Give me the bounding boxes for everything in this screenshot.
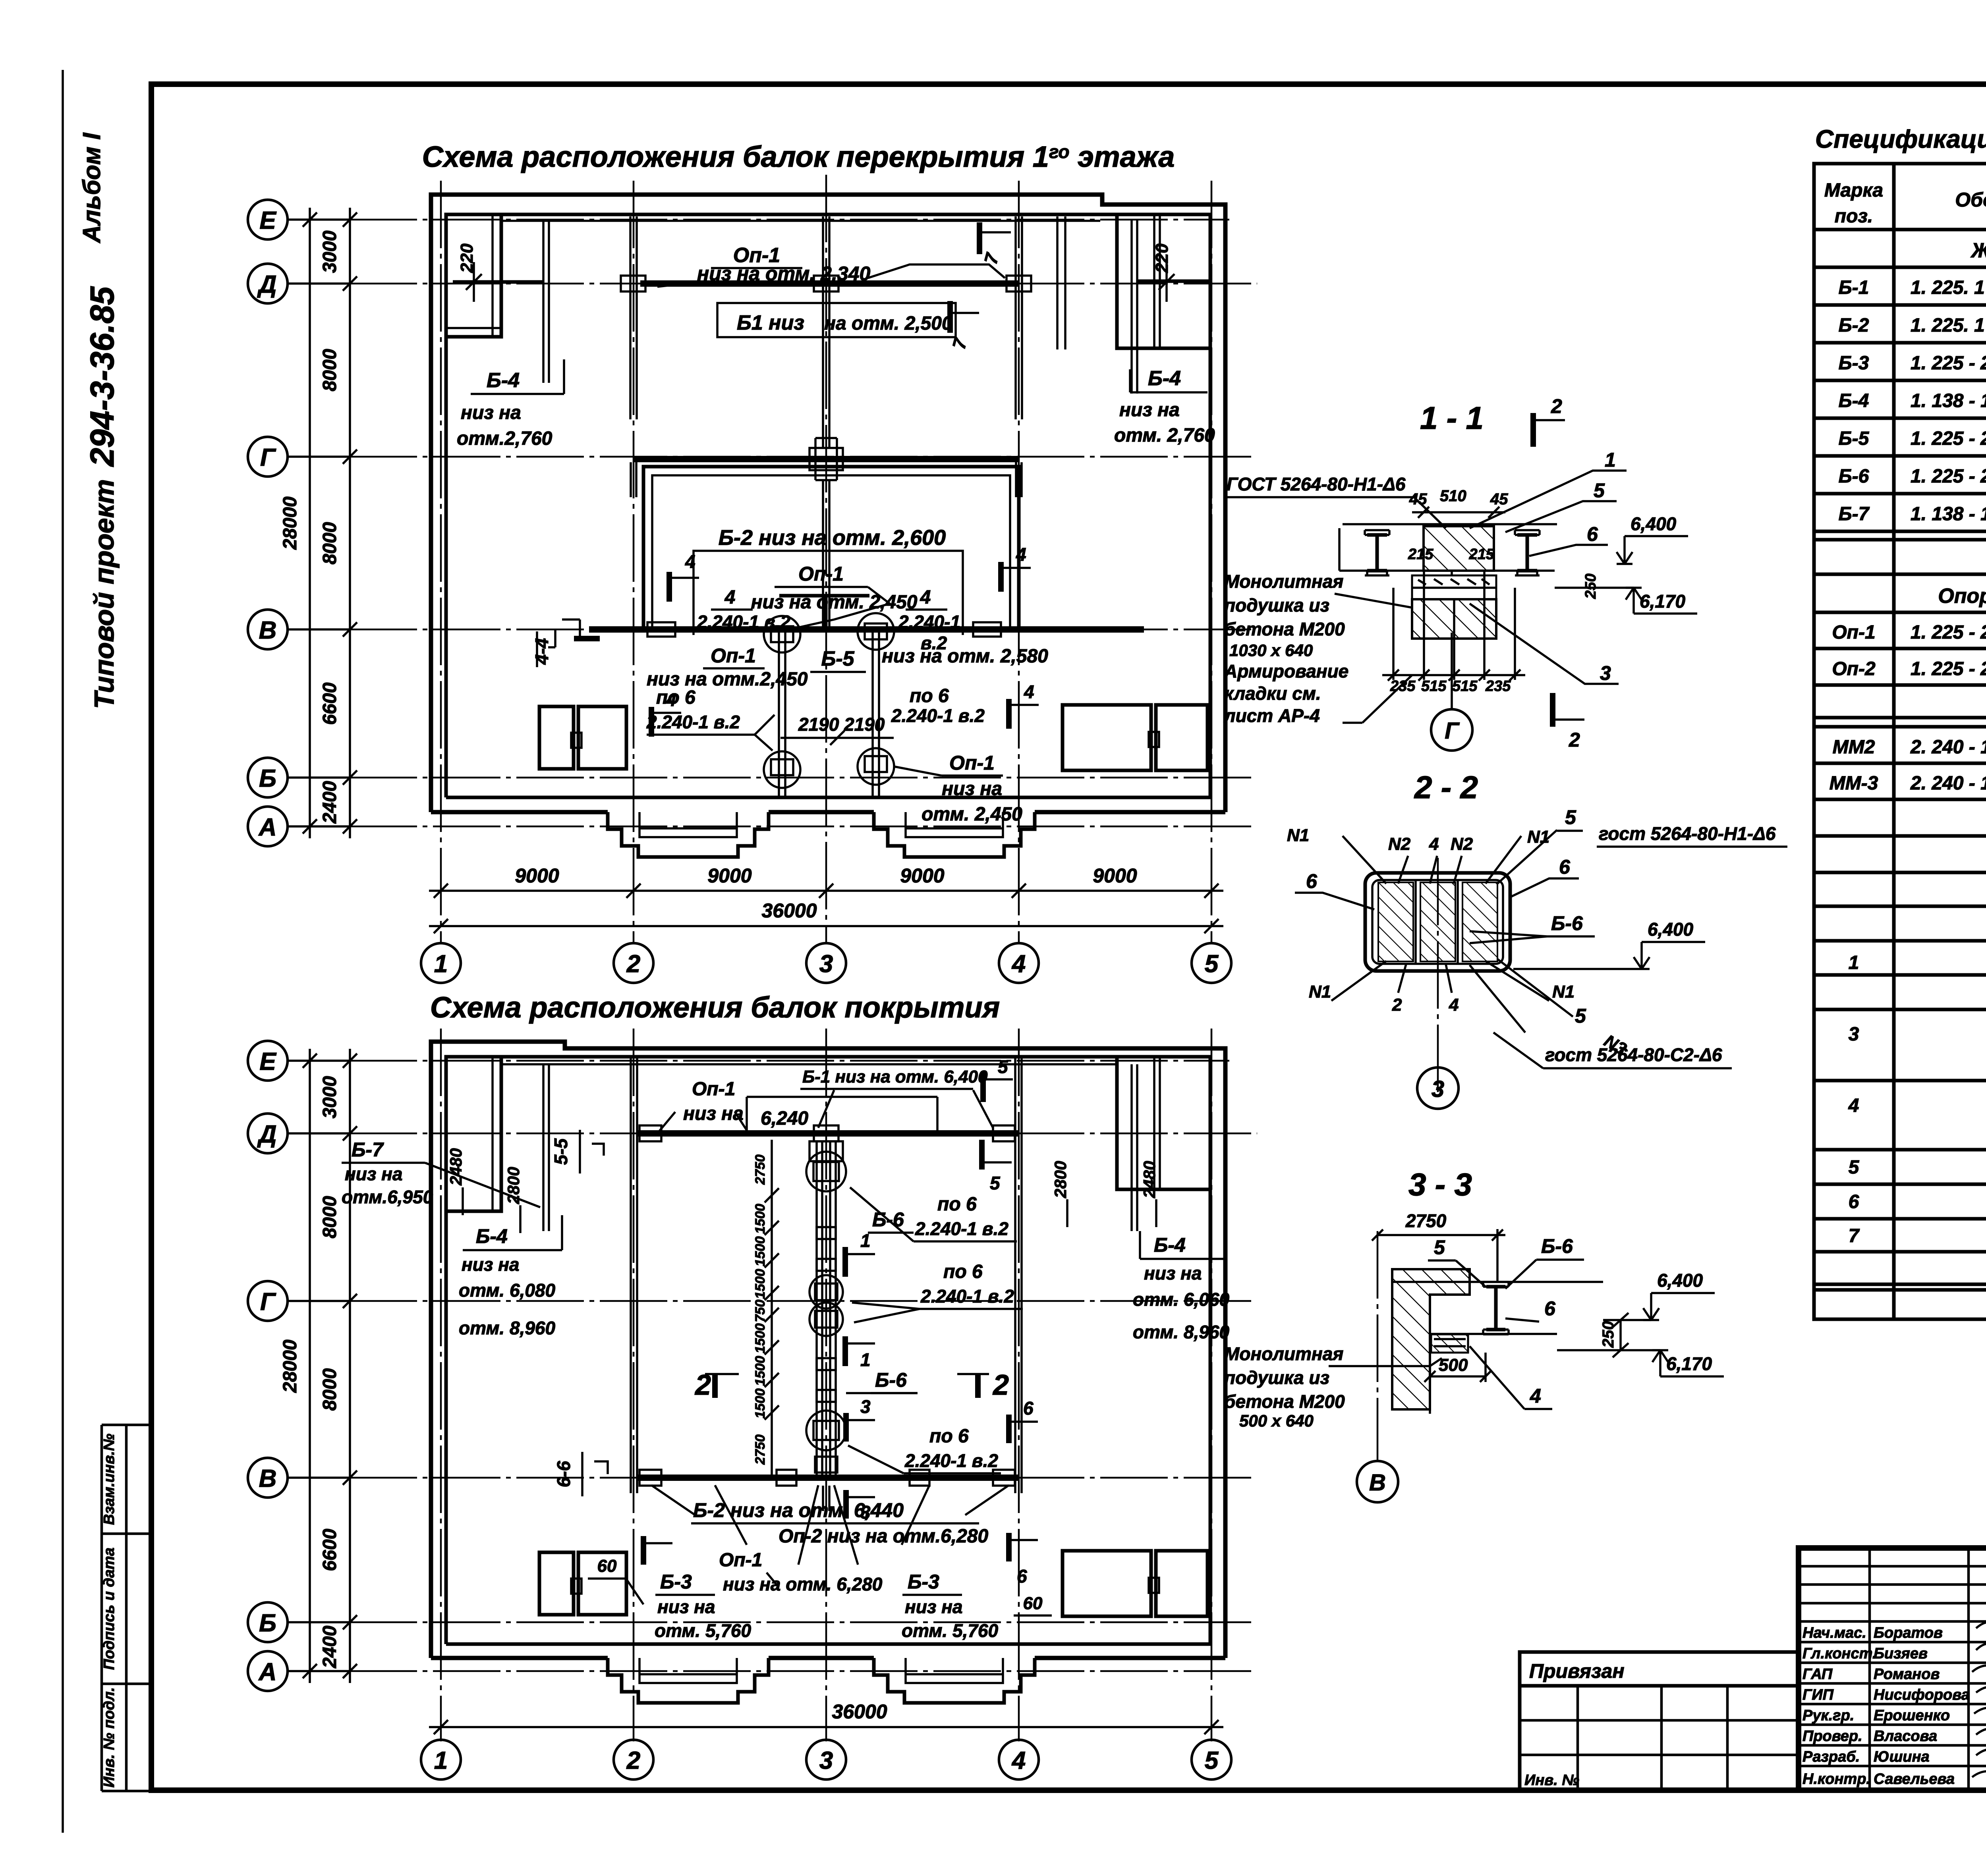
svg-text:Д: Д <box>257 271 277 298</box>
left porch platform <box>639 812 737 837</box>
svg-text:гост 5264-80-Н1-Δ6: гост 5264-80-Н1-Δ6 <box>1599 823 1776 844</box>
hatched beam block 1-1 <box>1424 526 1494 571</box>
svg-text:3000: 3000 <box>319 230 340 273</box>
svg-text:Власова: Власова <box>1874 1728 1937 1745</box>
section 2 cut mark bottom <box>1550 693 1555 727</box>
svg-text:6: 6 <box>1023 1398 1034 1419</box>
top plan outer wall <box>431 195 1225 812</box>
left porch platform lower <box>639 1658 737 1683</box>
grid axis col 5 lower <box>1211 1029 1213 1741</box>
svg-text:2480: 2480 <box>1140 1161 1159 1198</box>
callout 3 <box>1470 604 1619 684</box>
svg-text:Типовой проект: Типовой проект <box>89 479 120 709</box>
bottom grid circle 1 <box>421 943 461 983</box>
svg-text:3: 3 <box>819 950 833 978</box>
svg-text:3000: 3000 <box>319 1076 340 1118</box>
svg-text:Б-6: Б-6 <box>1551 912 1583 934</box>
svg-text:N1: N1 <box>1287 826 1309 845</box>
beam B-4 right vertical <box>1130 220 1133 394</box>
svg-text:1: 1 <box>1849 952 1859 973</box>
svg-text:2750: 2750 <box>753 1154 768 1185</box>
svg-text:Б: Б <box>259 765 276 792</box>
table horizontal lines <box>1814 230 1986 1290</box>
grid axis row G2 <box>288 1300 350 1302</box>
left margin stamp boxes <box>102 1425 151 1791</box>
svg-text:2: 2 <box>1551 395 1562 417</box>
support stub below D beam col2 <box>629 216 632 419</box>
svg-text:низ на отм. 6,280: низ на отм. 6,280 <box>723 1574 883 1594</box>
grid axis row G <box>288 455 350 458</box>
svg-text:Армирование: Армирование <box>1224 661 1348 681</box>
support pad col2 on D beam <box>621 276 645 291</box>
svg-text:1. 225 - 2 вып. 10: 1. 225 - 2 вып. 10 <box>1911 353 1986 374</box>
support stub below D beam col4 <box>1014 216 1017 419</box>
svg-text:отм. 6,060: отм. 6,060 <box>1133 1289 1230 1310</box>
top-right room E-D <box>1117 214 1210 348</box>
svg-text:Б-6: Б-6 <box>1839 466 1869 487</box>
svg-text:5: 5 <box>1205 950 1219 978</box>
svg-text:1 - 1: 1 - 1 <box>1420 400 1484 436</box>
svg-text:Нач.мас.: Нач.мас. <box>1802 1625 1866 1641</box>
svg-text:Оп-2 низ на отм.6,280: Оп-2 низ на отм.6,280 <box>779 1526 988 1547</box>
svg-text:2.240-1 в.2: 2.240-1 в.2 <box>646 712 740 732</box>
left dim chain total line lower <box>309 1049 311 1683</box>
svg-text:1. 138 - 10 вып. 1: 1. 138 - 10 вып. 1 <box>1911 390 1986 411</box>
svg-text:по 6: по 6 <box>937 1194 977 1215</box>
I-beam right 1-1 <box>1517 535 1537 571</box>
svg-text:Б-3: Б-3 <box>1839 353 1869 374</box>
D row wall segment right <box>1137 280 1210 283</box>
svg-text:отм. 2,450: отм. 2,450 <box>922 804 1022 825</box>
section flag 7 lower <box>947 301 953 333</box>
svg-text:6,400: 6,400 <box>1648 919 1694 940</box>
svg-text:Провер.: Провер. <box>1802 1728 1862 1745</box>
wall hatched 3-3 <box>1392 1269 1470 1409</box>
hanging beam below V left <box>778 629 780 797</box>
svg-text:5-5: 5-5 <box>551 1138 571 1165</box>
svg-text:Б-6: Б-6 <box>875 1369 907 1391</box>
svg-text:Нисифорова: Нисифорова <box>1874 1687 1970 1703</box>
svg-text:В: В <box>259 1465 277 1492</box>
svg-text:Опорные плиты: Опорные плиты <box>1938 585 1986 608</box>
circle V section 3-3 <box>1357 1461 1398 1502</box>
svg-text:4: 4 <box>1429 834 1439 854</box>
section flag 4 left <box>667 572 672 602</box>
svg-text:6: 6 <box>1306 870 1318 892</box>
small wall detail left of V beam <box>548 629 555 647</box>
svg-text:Б-2 низ на отм. 2,600: Б-2 низ на отм. 2,600 <box>719 526 946 550</box>
svg-text:Д: Д <box>257 1121 277 1148</box>
svg-text:низ на отм. 2,580: низ на отм. 2,580 <box>882 646 1048 667</box>
svg-text:9000: 9000 <box>707 865 752 887</box>
svg-text:Оп-1: Оп-1 <box>949 752 995 774</box>
grid axis row B <box>288 776 350 779</box>
svg-text:4: 4 <box>1011 950 1026 978</box>
svg-text:1500: 1500 <box>753 1269 768 1299</box>
svg-text:6,240: 6,240 <box>761 1108 808 1129</box>
joint circle V col right <box>858 613 894 650</box>
beam top line 1-1 <box>1339 524 1557 633</box>
svg-text:1. 138 - 10 вып. 2: 1. 138 - 10 вып. 2 <box>1911 504 1986 525</box>
svg-text:низ на: низ на <box>462 1254 520 1275</box>
separator plates 2-2 <box>1414 880 1417 964</box>
svg-text:Оп-1: Оп-1 <box>798 563 844 585</box>
svg-text:2: 2 <box>992 1369 1009 1401</box>
svg-text:Б-6: Б-6 <box>1541 1235 1573 1257</box>
svg-text:36000: 36000 <box>832 1700 887 1723</box>
svg-text:2750: 2750 <box>1405 1210 1447 1231</box>
svg-text:4: 4 <box>920 587 931 608</box>
svg-text:Б-6: Б-6 <box>872 1208 904 1231</box>
svg-text:Б-4: Б-4 <box>1839 390 1869 411</box>
grid circle V <box>248 610 288 649</box>
svg-text:Б-7: Б-7 <box>1839 504 1870 525</box>
svg-text:1: 1 <box>434 1747 448 1774</box>
joint circle V col left <box>764 616 800 652</box>
svg-text:1500: 1500 <box>753 1356 768 1386</box>
callout 6 <box>1529 545 1608 556</box>
svg-text:Б-3: Б-3 <box>908 1571 939 1593</box>
monolithic pad 1-1 <box>1412 575 1496 599</box>
beam along row V <box>589 626 1144 633</box>
svg-text:5: 5 <box>998 1056 1008 1077</box>
svg-text:2: 2 <box>626 950 640 978</box>
svg-text:45: 45 <box>1490 490 1508 508</box>
svg-text:N1: N1 <box>1527 827 1549 847</box>
name entries <box>1874 1625 1970 1787</box>
svg-text:бетона М200: бетона М200 <box>1224 1391 1345 1412</box>
joint circle B col right <box>858 748 894 785</box>
joint squares small on central beam <box>817 1227 836 1239</box>
grid circle D <box>248 264 288 303</box>
grid circle B <box>248 758 288 797</box>
svg-text:8000: 8000 <box>319 522 340 564</box>
section flag 3 upper <box>843 1413 849 1442</box>
svg-text:4: 4 <box>685 551 695 572</box>
svg-text:5: 5 <box>990 1173 1001 1193</box>
section flag 3 lower <box>843 1490 849 1519</box>
T symbol center <box>779 596 869 629</box>
svg-text:1. 225 - 2 вып. 11: 1. 225 - 2 вып. 11 <box>1911 622 1986 643</box>
svg-text:Б-2: Б-2 <box>1839 315 1869 336</box>
svg-text:низ на: низ на <box>942 778 1002 799</box>
I-beam 3-3 <box>1486 1287 1505 1330</box>
svg-text:1500: 1500 <box>753 1388 768 1419</box>
hatched strips 2-2 <box>1378 882 1413 961</box>
svg-text:220: 220 <box>1152 243 1172 273</box>
col3 beam inside pool room <box>822 480 824 629</box>
beam top line 3-3 <box>1392 1281 1603 1283</box>
svg-text:215: 215 <box>1469 546 1495 563</box>
svg-text:отм. 6,080: отм. 6,080 <box>459 1280 556 1301</box>
svg-text:5: 5 <box>1434 1236 1445 1258</box>
svg-text:4: 4 <box>1024 681 1034 702</box>
table outer frame <box>1814 164 1986 1319</box>
stub below V beam col3 <box>822 1486 824 1511</box>
svg-text:6: 6 <box>1849 1191 1859 1212</box>
svg-text:3: 3 <box>1600 662 1611 684</box>
ledge line 3-3 <box>1430 1333 1557 1335</box>
svg-text:Инв. №: Инв. № <box>1524 1772 1579 1789</box>
svg-text:6,170: 6,170 <box>1666 1353 1712 1374</box>
grid circle V2 <box>248 1458 288 1498</box>
grid circle G2 <box>248 1281 288 1321</box>
svg-text:Савельева: Савельева <box>1874 1771 1955 1787</box>
grid axis row A <box>288 825 350 828</box>
left dim chain total line <box>309 208 311 838</box>
svg-text:Подпись и дата: Подпись и дата <box>101 1548 118 1670</box>
rooms V-B left <box>539 706 574 769</box>
beam B-1 along row D <box>640 280 1019 287</box>
svg-text:6: 6 <box>1017 1566 1027 1586</box>
svg-text:Б-2 низ на отм. 6,440: Б-2 низ на отм. 6,440 <box>693 1499 904 1521</box>
callout 5 <box>1505 501 1617 532</box>
top-right room divider wall <box>1153 214 1155 348</box>
svg-text:низ на отм. 2,340: низ на отм. 2,340 <box>697 262 870 285</box>
beam B-4 right vertical lower <box>1130 1064 1133 1231</box>
4-4 section mark left <box>574 636 600 641</box>
svg-text:Г: Г <box>1445 718 1460 744</box>
grid circle A2 <box>248 1651 288 1691</box>
central beam B-6 col3 <box>815 1141 818 1478</box>
svg-text:Б-1: Б-1 <box>1839 277 1869 298</box>
svg-text:Монолитная: Монолитная <box>1224 1343 1343 1364</box>
grid circle E <box>248 200 288 239</box>
svg-text:3 - 3: 3 - 3 <box>1408 1167 1472 1202</box>
svg-text:Оп-2: Оп-2 <box>1832 658 1876 679</box>
svg-text:8000: 8000 <box>319 349 340 391</box>
svg-text:Оп-1: Оп-1 <box>719 1550 762 1571</box>
section flag 6 left bottom <box>641 1536 646 1565</box>
grid axis row V2 <box>288 1476 350 1479</box>
svg-text:поз.: поз. <box>1835 206 1873 227</box>
svg-text:4-4: 4-4 <box>531 638 552 665</box>
svg-text:Б-1 низ на отм. 6,400: Б-1 низ на отм. 6,400 <box>802 1067 988 1087</box>
svg-text:6: 6 <box>1587 523 1598 545</box>
svg-text:1: 1 <box>1605 449 1616 471</box>
signatures <box>1972 1622 1986 1779</box>
pad texture 3-3 <box>1434 1339 1466 1346</box>
right porch lower <box>874 1658 1035 1703</box>
hall side wall col4 <box>1014 1057 1016 1493</box>
grid axis col 1 <box>440 181 442 943</box>
callout 1 <box>1470 471 1627 528</box>
D row wall segment left <box>453 280 543 284</box>
svg-text:Б: Б <box>259 1610 276 1637</box>
bottom grid circle 2 <box>614 943 653 983</box>
bottom grid circle 1L <box>421 1740 461 1779</box>
svg-text:низ на: низ на <box>345 1164 403 1184</box>
svg-text:7: 7 <box>1849 1226 1860 1247</box>
wall pair right of col4 top strip <box>1056 216 1059 349</box>
svg-text:отм. 8,960: отм. 8,960 <box>1133 1322 1230 1342</box>
svg-text:N1: N1 <box>1552 982 1575 1002</box>
bottom grid circle 2L <box>614 1740 653 1779</box>
svg-text:N1: N1 <box>1309 982 1331 1002</box>
svg-text:4: 4 <box>1848 1095 1859 1116</box>
svg-text:Инв. № подл.: Инв. № подл. <box>101 1687 118 1788</box>
svg-text:ГИП: ГИП <box>1802 1687 1834 1703</box>
grid axis col 2 lower <box>633 1029 635 1741</box>
svg-text:515: 515 <box>1452 678 1478 695</box>
beam B-1 along D lower <box>637 1130 1018 1137</box>
joint circle c3 lower <box>806 1411 846 1450</box>
grid circle A <box>248 807 288 846</box>
grid axis row E <box>288 218 350 221</box>
top plan bottom wall with porches <box>431 810 1225 814</box>
svg-text:1. 225 - 2 вып. 11: 1. 225 - 2 вып. 11 <box>1911 428 1986 449</box>
svg-text:4: 4 <box>724 587 736 608</box>
bottom grid circle 5 <box>1192 943 1231 983</box>
svg-text:Е: Е <box>259 1048 276 1075</box>
table vertical lines <box>1894 164 1986 1319</box>
grid circle G <box>248 437 288 477</box>
svg-text:гост 5264-80-С2-Δ6: гост 5264-80-С2-Δ6 <box>1545 1044 1722 1065</box>
svg-text:отм. 5,760: отм. 5,760 <box>655 1620 752 1641</box>
svg-text:8000: 8000 <box>319 1196 340 1238</box>
center lines 2-2 <box>1437 858 1439 1096</box>
I-beam left 1-1 <box>1367 535 1387 571</box>
grid axis row D <box>288 282 350 285</box>
svg-text:500 х 640: 500 х 640 <box>1239 1411 1314 1430</box>
svg-text:1030 х 640: 1030 х 640 <box>1229 641 1313 660</box>
svg-text:1500: 1500 <box>753 1236 768 1266</box>
dim 2750 3-3 <box>1377 1234 1505 1236</box>
svg-text:кладки см.: кладки см. <box>1224 683 1321 704</box>
grid axis col 1 lower <box>440 1029 442 1741</box>
rooms V-B right lower <box>1063 1551 1151 1616</box>
svg-text:Гл.конст.: Гл.конст. <box>1802 1645 1876 1662</box>
bottom grid circle 3L <box>806 1740 846 1779</box>
left porch lower <box>608 1658 769 1703</box>
svg-text:4: 4 <box>666 689 676 710</box>
svg-text:5: 5 <box>1594 479 1605 502</box>
svg-text:28000: 28000 <box>280 496 301 550</box>
section flag 1 lower <box>842 1336 848 1366</box>
svg-text:низ на: низ на <box>683 1103 744 1124</box>
bottom dim line 9000s <box>429 890 1223 892</box>
svg-text:6,170: 6,170 <box>1640 591 1686 612</box>
svg-text:Юшина: Юшина <box>1874 1749 1930 1765</box>
svg-text:Железобетонные прогоны: Железобетонные прогоны <box>1970 239 1986 262</box>
leader fan below V beam <box>651 1485 1009 1565</box>
svg-text:подушка из: подушка из <box>1224 595 1329 616</box>
supports on V beam <box>647 622 675 637</box>
role labels <box>1802 1625 1876 1787</box>
support pad col3 on D beam <box>814 276 838 291</box>
svg-text:по 6: по 6 <box>929 1426 969 1447</box>
svg-text:Б-5: Б-5 <box>821 647 854 670</box>
svg-text:N2: N2 <box>1451 834 1473 854</box>
hanging beam below V right <box>871 629 874 797</box>
svg-text:на отм. 2,500: на отм. 2,500 <box>824 313 952 334</box>
title block outer <box>1799 1548 1986 1790</box>
top-left room inner divider <box>491 214 494 337</box>
left small columns <box>1799 1548 1986 1790</box>
svg-text:2480: 2480 <box>446 1148 465 1185</box>
vertical ext lines for dims <box>1393 571 1515 680</box>
svg-text:2.240-1 в.2: 2.240-1 в.2 <box>904 1450 998 1471</box>
bottom plan bottom wall with porches <box>431 1656 1225 1660</box>
callout 6 right 2-2 <box>1509 878 1579 897</box>
pool hall room walls <box>643 467 1019 629</box>
svg-text:Б-4: Б-4 <box>1154 1234 1186 1256</box>
svg-text:Б-4: Б-4 <box>476 1225 508 1247</box>
hall side wall col2 <box>630 1057 632 1493</box>
svg-text:3: 3 <box>819 1747 833 1774</box>
cross detail col3 row G <box>815 438 837 480</box>
left dim chain segment line <box>349 208 351 838</box>
svg-text:по 6: по 6 <box>943 1261 983 1282</box>
top strip second inner line lower <box>501 1063 1117 1065</box>
svg-text:В: В <box>259 617 277 644</box>
svg-text:Ерошенко: Ерошенко <box>1874 1707 1950 1724</box>
section flag 4 right <box>998 562 1004 592</box>
support pad col4 on D beam <box>1007 276 1031 291</box>
section flag 7 upper <box>977 222 982 254</box>
beam along row G <box>633 456 1019 462</box>
svg-text:Взам.инв.№: Взам.инв.№ <box>101 1434 118 1525</box>
section flag 5 upper <box>980 1072 986 1102</box>
svg-text:Обозначение: Обозначение <box>1955 189 1986 211</box>
svg-text:Разраб.: Разраб. <box>1802 1749 1860 1765</box>
svg-text:отм.2,760: отм.2,760 <box>457 428 553 449</box>
svg-text:500: 500 <box>1439 1355 1468 1375</box>
beam B-4 left vertical <box>542 222 545 383</box>
callout box Op-1 2,450 <box>694 551 963 635</box>
svg-text:2800: 2800 <box>1051 1161 1070 1198</box>
svg-text:6-6: 6-6 <box>553 1461 574 1487</box>
svg-text:по 6: по 6 <box>910 685 949 706</box>
svg-text:Марка: Марка <box>1824 180 1883 201</box>
right porch platform <box>906 812 1003 837</box>
outer trim line left <box>62 70 64 1833</box>
pad hatched 3-3 <box>1431 1334 1468 1353</box>
privyazan block <box>1520 1652 1799 1790</box>
svg-text:низ на: низ на <box>1119 400 1180 421</box>
svg-text:6: 6 <box>1544 1297 1556 1320</box>
svg-text:Боратов: Боратов <box>1874 1625 1943 1641</box>
svg-text:4: 4 <box>1011 1747 1026 1774</box>
svg-text:6,400: 6,400 <box>1631 513 1677 534</box>
grid axis row B2 <box>288 1621 350 1623</box>
right porch platform lower <box>906 1658 1003 1683</box>
svg-text:Схема расположения балок по: Схема расположения балок покрытия <box>430 991 1000 1024</box>
svg-text:Б-3: Б-3 <box>660 1571 692 1593</box>
svg-text:отм. 5,760: отм. 5,760 <box>902 1620 999 1641</box>
svg-text:отм.6,950: отм.6,950 <box>342 1187 433 1207</box>
bottom dim line 36000 lower <box>429 1726 1223 1728</box>
svg-text:Н.контр.: Н.контр. <box>1802 1771 1870 1787</box>
section flag 4 lower left <box>649 707 654 737</box>
svg-text:1. 225 - 2 вып. 11: 1. 225 - 2 вып. 11 <box>1911 466 1986 487</box>
dim ticks on segment chain <box>303 212 357 834</box>
top-right room E-D lower <box>1117 1057 1210 1189</box>
left porch <box>608 812 769 857</box>
svg-text:2.240-1 в.2: 2.240-1 в.2 <box>920 1286 1014 1307</box>
svg-text:60: 60 <box>1023 1594 1043 1613</box>
svg-text:бетона М200: бетона М200 <box>1224 619 1345 639</box>
stub below G beam col2 <box>630 462 632 497</box>
rooms V-B right <box>1063 705 1151 770</box>
grid axis col 4 lower <box>1018 1029 1020 1741</box>
bottom plan outer wall <box>431 1042 1225 1658</box>
grid axis col 4 <box>1018 181 1020 943</box>
svg-text:3: 3 <box>1849 1024 1859 1045</box>
svg-text:1500: 1500 <box>753 1323 768 1353</box>
svg-text:отм. 2,760: отм. 2,760 <box>1114 425 1215 446</box>
left dim chain segment line lower <box>349 1049 351 1683</box>
